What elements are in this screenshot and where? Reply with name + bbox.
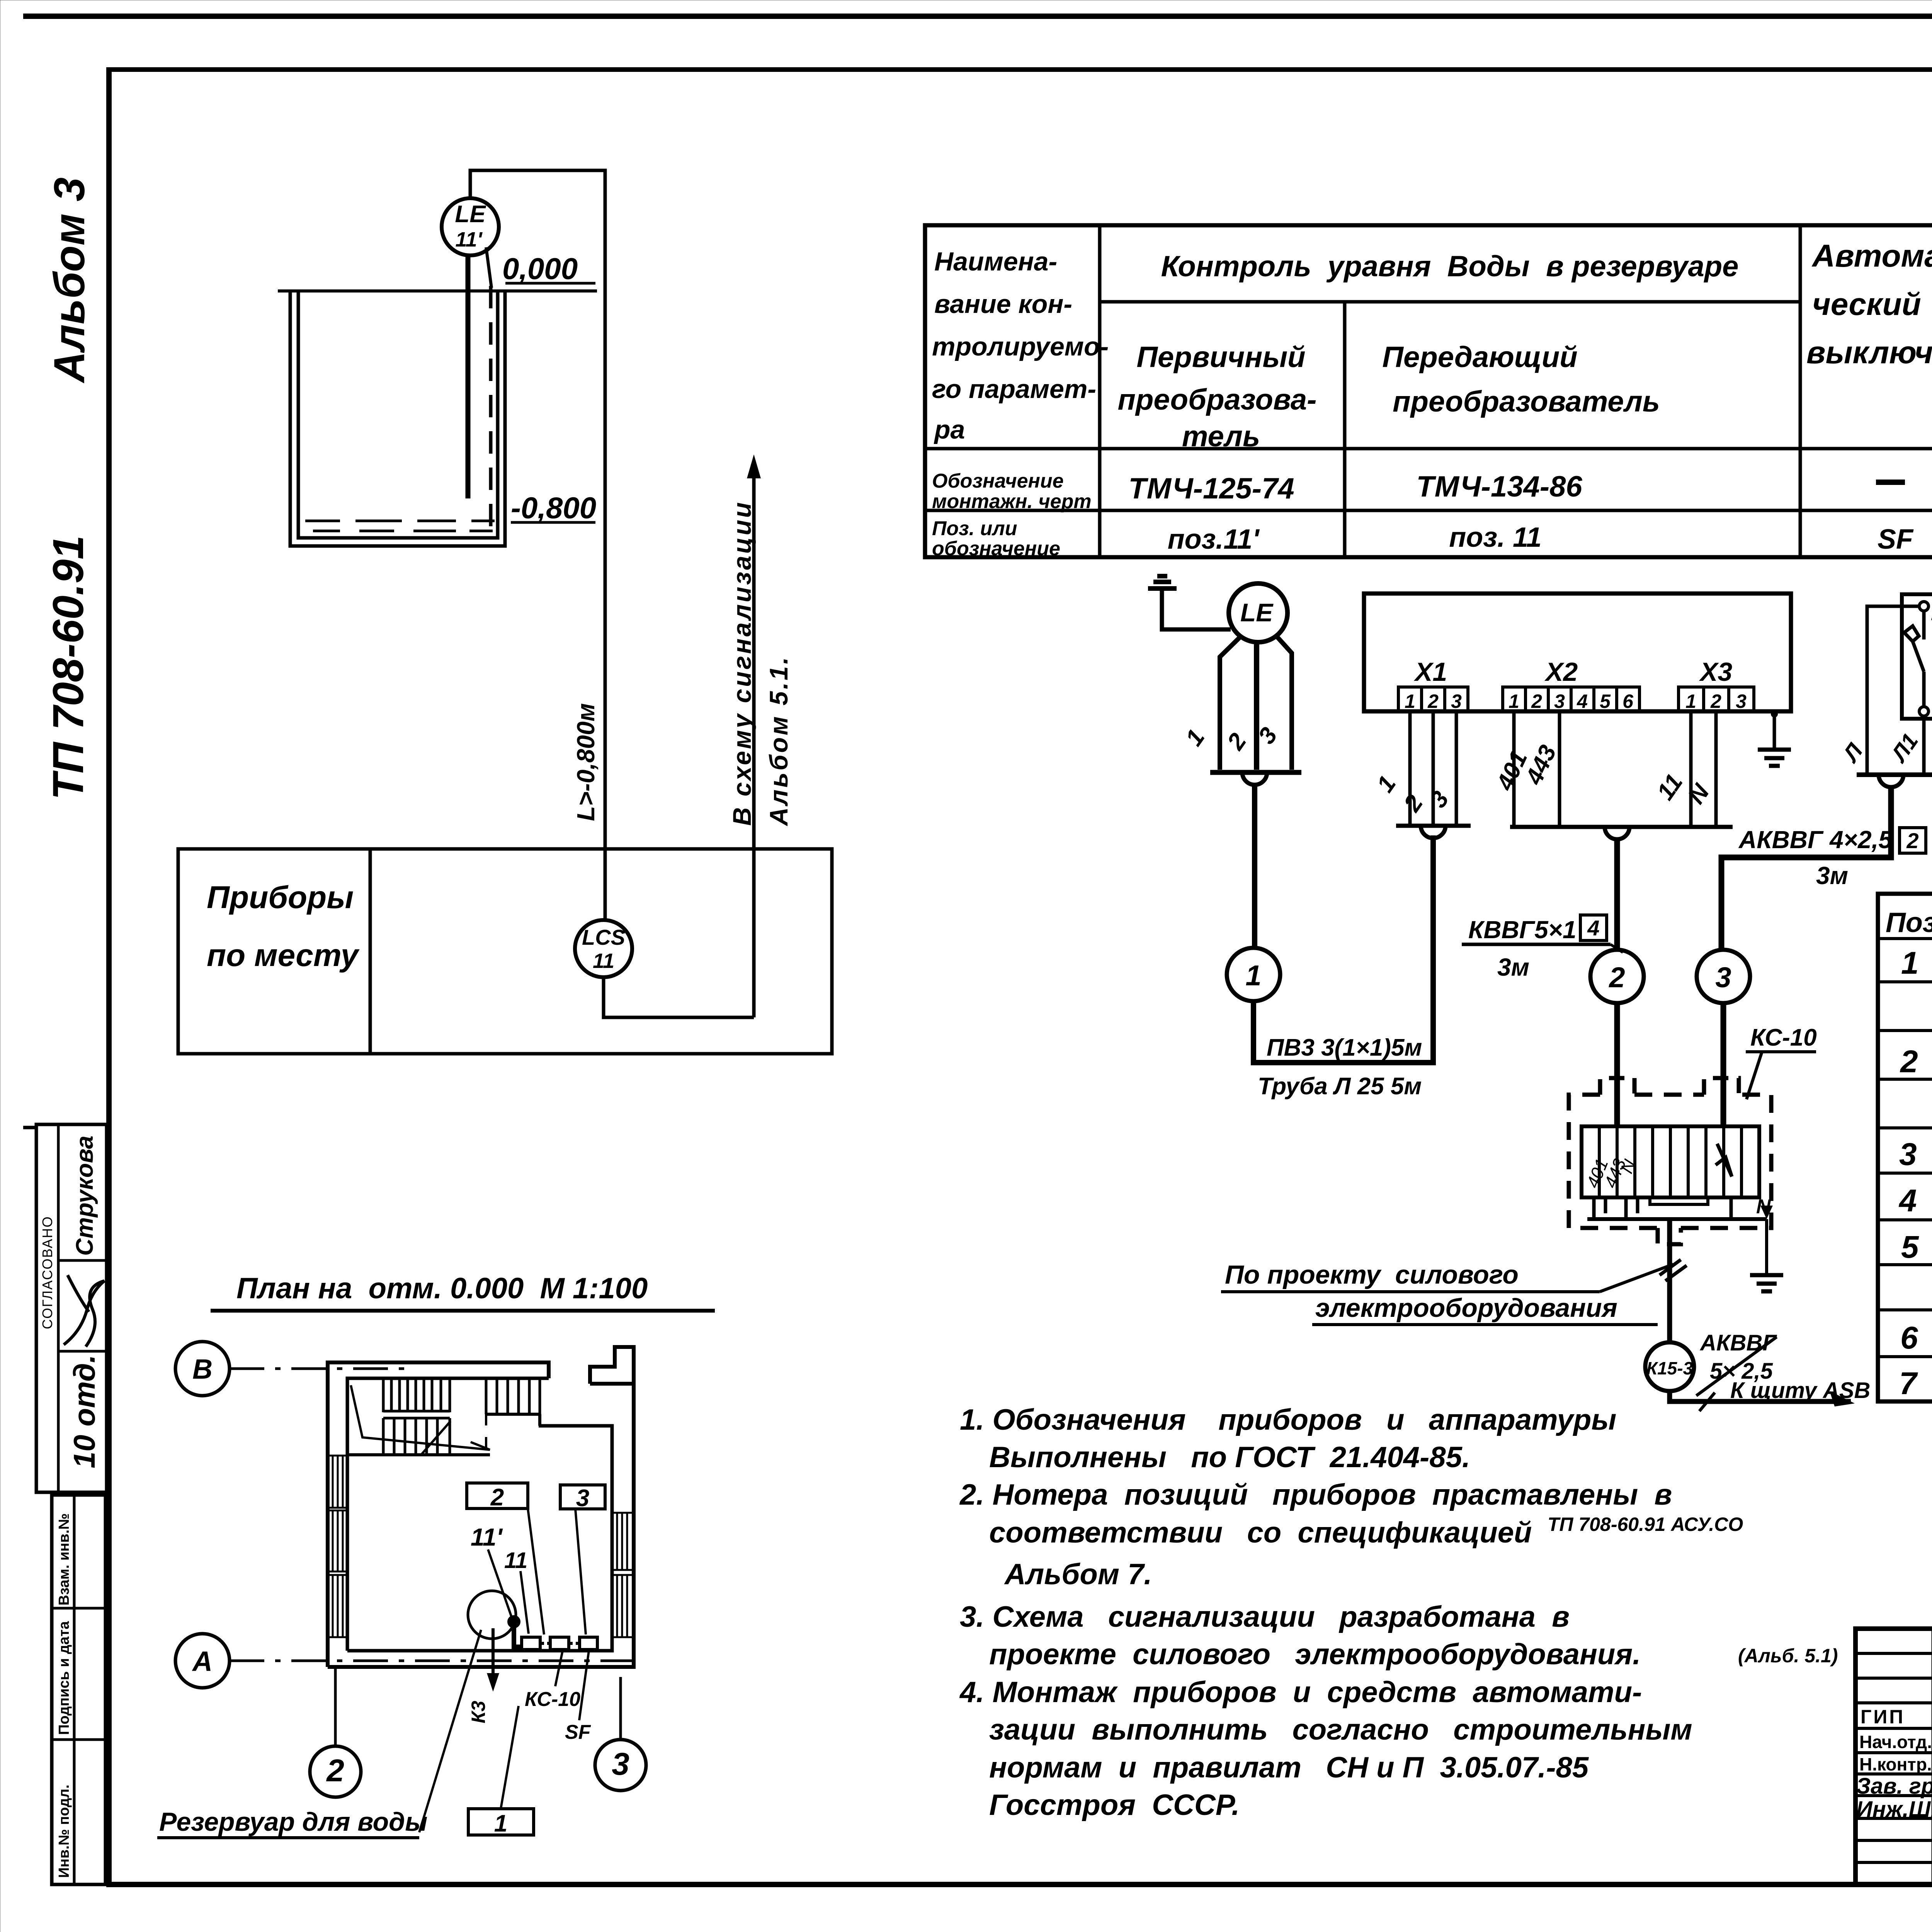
svg-text:тролируемо-: тролируемо- xyxy=(932,332,1109,361)
svg-text:зации выполнить согласно: зации выполнить согласно строительным xyxy=(989,1713,1692,1746)
walls inner xyxy=(347,1378,549,1651)
terminal block xyxy=(1582,1126,1759,1197)
wire LCS to signal line xyxy=(604,977,754,1017)
svg-text:1: 1 xyxy=(1245,959,1261,992)
box ground wire xyxy=(1773,711,1776,750)
dash xyxy=(1876,480,1905,485)
svg-text:2: 2 xyxy=(1427,690,1439,712)
svg-text:N: N xyxy=(1683,779,1715,809)
stairs cut lines xyxy=(351,1385,490,1450)
svg-text:3: 3 xyxy=(1899,1137,1917,1172)
svg-text:1: 1 xyxy=(494,1810,507,1837)
svg-text:Поз.: Поз. xyxy=(1886,907,1932,938)
top border line xyxy=(23,14,1932,19)
svg-text:SF: SF xyxy=(565,1721,591,1743)
junction box KS-10 dashed outline xyxy=(1569,1095,1771,1228)
X2 X3 cable bar xyxy=(1510,825,1733,829)
wire down from KS-10 xyxy=(1667,1219,1672,1342)
svg-text:Инж.Шк: Инж.Шк xyxy=(1856,1797,1932,1822)
tank walls xyxy=(290,291,505,546)
ground at LE xyxy=(1148,576,1177,588)
instrument box xyxy=(1364,594,1791,711)
KS-10 top notches xyxy=(1600,1078,1739,1095)
left stamp lower section xyxy=(52,1495,105,1884)
svg-text:1: 1 xyxy=(1372,771,1401,797)
probe link xyxy=(486,247,492,288)
X3 wires 11 N xyxy=(1691,711,1716,827)
svg-text:К15-3: К15-3 xyxy=(1646,1358,1693,1378)
svg-text:1: 1 xyxy=(1180,724,1210,751)
stairs dashed edge xyxy=(485,1383,487,1450)
wires into KS-10 xyxy=(1614,1003,1620,1126)
svg-text:Л: Л xyxy=(1837,739,1868,767)
svg-text:1: 1 xyxy=(1405,690,1415,712)
svg-text:2: 2 xyxy=(1222,728,1252,755)
svg-text:(Альб. 5.1): (Альб. 5.1) xyxy=(1738,1645,1838,1667)
svg-text:2: 2 xyxy=(1710,690,1721,712)
frame top xyxy=(109,67,1932,72)
svg-text:0,000: 0,000 xyxy=(502,252,578,286)
svg-text:Н.контр.: Н.контр. xyxy=(1859,1754,1932,1774)
stairs right flight xyxy=(486,1378,540,1414)
KS-10 bottom notch xyxy=(1658,1228,1681,1244)
svg-text:монтажн. черт: монтажн. черт xyxy=(932,490,1092,513)
frame bottom xyxy=(109,1882,1932,1887)
svg-text:1: 1 xyxy=(1685,690,1696,712)
sensor bottom bar xyxy=(1210,770,1301,775)
pin 1 xyxy=(1922,672,1926,707)
wire from LE to LCS xyxy=(470,170,605,922)
svg-text:11: 11 xyxy=(504,1548,527,1573)
svg-text:электрооборудования: электрооборудования xyxy=(1315,1293,1617,1323)
svg-text:КС-10: КС-10 xyxy=(525,1688,580,1711)
svg-text:LE: LE xyxy=(1240,598,1274,627)
svg-text:3: 3 xyxy=(1715,961,1731,993)
svg-text:СОГЛАСОВАНО: СОГЛАСОВАНО xyxy=(39,1216,55,1329)
K3 arrow xyxy=(492,1628,495,1685)
wire breaker to circle3 xyxy=(1721,786,1891,950)
svg-text:Альбом 7.: Альбом 7. xyxy=(1004,1558,1152,1591)
svg-text:проекте силового электрообо: проекте силового электрооборудования. xyxy=(989,1638,1641,1671)
instruments-by-place box xyxy=(178,849,832,1054)
svg-text:поз. 11: поз. 11 xyxy=(1449,522,1541,553)
svg-text:Л1: Л1 xyxy=(1886,729,1923,767)
bottom lugs xyxy=(1594,1197,1731,1219)
callout box 3 xyxy=(560,1485,605,1509)
cable gland xyxy=(1242,772,1267,785)
probe solid xyxy=(466,255,471,498)
instrument circle LCS 11 xyxy=(575,920,632,977)
svg-text:Взам. инв.№: Взам. инв.№ xyxy=(56,1513,72,1605)
stairs flight verticals lower xyxy=(383,1418,450,1455)
circle K15-3 xyxy=(1645,1342,1694,1391)
callout box 2 xyxy=(467,1483,528,1509)
axis B line xyxy=(230,1367,410,1370)
wire from dot xyxy=(514,1622,521,1647)
svg-text:X3: X3 xyxy=(1699,657,1732,687)
svg-text:3м: 3м xyxy=(1816,862,1848,889)
X1 wires xyxy=(1410,711,1456,826)
svg-text:11: 11 xyxy=(1652,769,1688,805)
svg-text:2: 2 xyxy=(1906,828,1918,853)
svg-text:Нач.отд.: Нач.отд. xyxy=(1859,1732,1932,1752)
svg-text:4: 4 xyxy=(1898,1183,1917,1218)
svg-text:вание кон-: вание кон- xyxy=(934,289,1072,319)
svg-text:11': 11' xyxy=(471,1523,503,1551)
pin 2 xyxy=(1919,602,1929,611)
svg-text:4: 4 xyxy=(1577,690,1588,712)
svg-text:соответствии со спецификаци: соответствии со спецификацией xyxy=(989,1516,1532,1549)
svg-text:4: 4 xyxy=(1587,916,1599,940)
svg-text:3: 3 xyxy=(1451,690,1462,712)
svg-text:К3: К3 xyxy=(468,1701,489,1723)
svg-text:В схему сигнализации: В схему сигнализации xyxy=(728,500,756,826)
stairs rails xyxy=(383,1411,450,1418)
left wall windows xyxy=(333,1456,343,1637)
svg-text:11': 11' xyxy=(456,228,483,251)
svg-text:Выполнены по ГОСТ 21.404-85: Выполнены по ГОСТ 21.404-85. xyxy=(989,1441,1470,1474)
sensor circle LE xyxy=(1229,583,1287,642)
svg-text:Поз. или: Поз. или xyxy=(932,517,1017,540)
svg-text:3: 3 xyxy=(1425,786,1454,813)
svg-text:11: 11 xyxy=(593,949,614,973)
svg-text:нормам и правилат СН и П: нормам и правилат СН и П 3.05.07.-85 xyxy=(989,1751,1589,1784)
svg-text:ра: ра xyxy=(934,415,965,444)
svg-text:Резервуар для воды: Резервуар для воды xyxy=(159,1807,427,1837)
probe dashed xyxy=(489,286,493,529)
level 0.000 line xyxy=(278,289,597,293)
svg-text:2: 2 xyxy=(1398,790,1428,817)
svg-text:1. Обозначения приборов и: 1. Обозначения приборов и аппаратуры xyxy=(960,1403,1616,1436)
svg-text:2: 2 xyxy=(1531,690,1542,712)
svg-text:2: 2 xyxy=(1900,1044,1918,1079)
svg-text:Инв.№ подл.: Инв.№ подл. xyxy=(56,1784,72,1878)
svg-text:План на отм. 0.000 М 1:100: План на отм. 0.000 М 1:100 xyxy=(236,1272,648,1305)
circle 3 xyxy=(1697,950,1750,1003)
svg-text:Госстроя СССР.: Госстроя СССР. xyxy=(989,1789,1240,1821)
breaker left branch xyxy=(1867,606,1919,775)
svg-text:Передающий: Передающий xyxy=(1382,341,1577,374)
sensor dot xyxy=(507,1615,520,1628)
svg-text:3: 3 xyxy=(1554,690,1565,712)
svg-text:LCS: LCS xyxy=(582,925,625,949)
signature squiggle xyxy=(64,1275,104,1347)
svg-text:ТМЧ-134-86: ТМЧ-134-86 xyxy=(1416,470,1582,503)
svg-text:тель: тель xyxy=(1182,420,1260,453)
svg-text:Автомати-: Автомати- xyxy=(1811,238,1932,274)
svg-text:го парамет-: го парамет- xyxy=(932,374,1096,404)
svg-text:Первичный: Первичный xyxy=(1136,341,1305,374)
svg-text:Подпись и дата: Подпись и дата xyxy=(56,1621,72,1735)
svg-text:2: 2 xyxy=(326,1753,344,1788)
svg-text:LE: LE xyxy=(455,201,486,228)
wire to shield ASB xyxy=(1670,1391,1851,1401)
svg-text:по месту: по месту xyxy=(207,938,360,973)
svg-text:X1: X1 xyxy=(1413,657,1447,687)
circle 2 xyxy=(1590,950,1644,1003)
svg-text:10 отд.: 10 отд. xyxy=(67,1355,101,1468)
svg-text:К щиту АSВ: К щиту АSВ xyxy=(1730,1378,1870,1403)
svg-text:SF: SF xyxy=(1878,524,1914,555)
axis circle 3 xyxy=(595,1740,646,1791)
water level dashes xyxy=(305,521,495,531)
svg-text:Обозначение: Обозначение xyxy=(932,470,1064,492)
axis A line xyxy=(230,1660,643,1662)
svg-text:7: 7 xyxy=(1899,1366,1918,1401)
stairs flight verticals upper xyxy=(383,1378,450,1412)
svg-text:6: 6 xyxy=(1622,690,1634,712)
svg-text:обозначение: обозначение xyxy=(932,537,1060,560)
wire X2 to circle2 xyxy=(1614,838,1620,950)
instrument circle LE 11' xyxy=(442,198,499,255)
svg-text:4. Монтаж приборов и средст: 4. Монтаж приборов и средств автомати- xyxy=(959,1676,1642,1709)
ground from N bus xyxy=(1765,1219,1768,1275)
svg-text:1: 1 xyxy=(1901,946,1919,981)
svg-text:ТП 708-60.91: ТП 708-60.91 xyxy=(44,535,92,800)
svg-text:3: 3 xyxy=(576,1485,589,1512)
sensor body pos 1 xyxy=(1220,638,1240,770)
svg-text:3м: 3м xyxy=(1497,953,1529,981)
svg-text:Зав. гр.: Зав. гр. xyxy=(1856,1774,1932,1799)
svg-text:Приборы: Приборы xyxy=(207,880,354,915)
svg-text:ТП 708-60.91 АСУ.СО: ТП 708-60.91 АСУ.СО xyxy=(1548,1514,1743,1535)
svg-text:выключатель: выключатель xyxy=(1806,335,1932,370)
axis circle B xyxy=(175,1342,230,1396)
svg-text:L>-0,800м: L>-0,800м xyxy=(572,703,600,821)
svg-text:преобразова-: преобразова- xyxy=(1118,383,1317,416)
svg-text:ГИП: ГИП xyxy=(1861,1706,1905,1728)
svg-text:2: 2 xyxy=(490,1484,504,1511)
svg-text:КС-10: КС-10 xyxy=(1750,1024,1817,1051)
svg-text:6: 6 xyxy=(1900,1320,1918,1355)
svg-text:Труба Л 25 5м: Труба Л 25 5м xyxy=(1258,1073,1422,1100)
svg-text:1: 1 xyxy=(1509,690,1519,712)
break mark xyxy=(1660,1260,1687,1281)
svg-text:2: 2 xyxy=(1608,961,1625,993)
svg-text:Наимена-: Наимена- xyxy=(934,247,1057,276)
wire circle1 to X1 xyxy=(1253,835,1433,1063)
wire sensor to circle 1 xyxy=(1252,785,1257,948)
svg-text:ТМЧ-125-74: ТМЧ-125-74 xyxy=(1128,472,1294,505)
svg-text:КВВГ5×1: КВВГ5×1 xyxy=(1468,916,1577,944)
svg-text:2. Нотера позиций приборов: 2. Нотера позиций приборов праставлены в xyxy=(959,1478,1672,1511)
svg-text:5: 5 xyxy=(1901,1230,1919,1265)
svg-text:3: 3 xyxy=(1736,690,1747,712)
breaker SF box xyxy=(1902,594,1932,719)
svg-text:-0,800: -0,800 xyxy=(511,491,596,525)
svg-text:поз.11': поз.11' xyxy=(1168,524,1260,555)
svg-text:преобразователь: преобразователь xyxy=(1393,385,1660,418)
bottom N bus xyxy=(1587,1217,1767,1221)
X2 wires 401 443 xyxy=(1514,711,1560,827)
svg-text:В: В xyxy=(192,1354,213,1385)
svg-text:3. Схема сигнализации разр: 3. Схема сигнализации разработана в xyxy=(960,1600,1570,1633)
svg-text:3: 3 xyxy=(612,1747,629,1782)
svg-text:Контроль уравня Воды в резе: Контроль уравня Воды в резервуаре xyxy=(1161,250,1739,283)
svg-text:Струкова: Струкова xyxy=(71,1136,98,1256)
svg-text:По проекту силового: По проекту силового xyxy=(1225,1260,1519,1289)
device boxes xyxy=(522,1637,540,1650)
leader to break xyxy=(1600,1264,1673,1292)
ground symbol xyxy=(1758,750,1791,766)
breaker cable bar xyxy=(1857,772,1932,777)
svg-text:АКВВГ 4×2,5: АКВВГ 4×2,5 xyxy=(1738,826,1893,854)
svg-text:X2: X2 xyxy=(1544,657,1578,687)
svg-text:ческий: ческий xyxy=(1812,287,1921,322)
frame left xyxy=(106,67,112,1887)
svg-text:АКВВГ: АКВВГ xyxy=(1699,1330,1777,1355)
svg-text:Альбом 5.1.: Альбом 5.1. xyxy=(764,655,793,827)
X1 cable bar xyxy=(1396,824,1471,828)
axis circle 2 xyxy=(310,1746,361,1797)
terminal arrow mark xyxy=(1716,1144,1732,1177)
walls outer xyxy=(328,1362,549,1667)
svg-text:А: А xyxy=(192,1646,213,1677)
svg-text:5: 5 xyxy=(1600,690,1611,712)
reservoir circle xyxy=(468,1591,516,1639)
callout box 1 xyxy=(468,1809,534,1835)
left stamp upper section xyxy=(36,1124,107,1492)
svg-text:443: 443 xyxy=(1520,741,1561,789)
svg-text:Альбом 3: Альбом 3 xyxy=(45,177,94,384)
right wall windows xyxy=(617,1513,627,1637)
stairwell bottom xyxy=(347,1453,490,1456)
axis circle A xyxy=(175,1634,230,1688)
circle 1 xyxy=(1227,948,1280,1001)
svg-text:ПВ3 3(1×1)5м: ПВ3 3(1×1)5м xyxy=(1267,1034,1422,1061)
breaker blade xyxy=(1904,626,1924,672)
signal arrow line to album 5.1 xyxy=(752,464,756,1017)
